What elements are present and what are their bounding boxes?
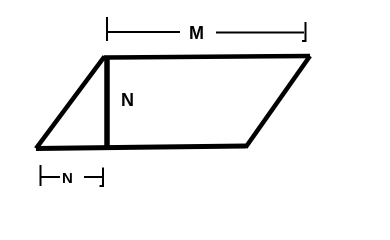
svg-text:M: M [189, 23, 204, 43]
parallelogram left slant edge [36, 57, 105, 149]
dimension M: left line segment [107, 31, 180, 33]
dimension M: right line segment [216, 32, 304, 34]
svg-text:N: N [62, 170, 73, 187]
svg-text:N: N [121, 90, 134, 110]
dimension N: right tick [100, 168, 104, 187]
dimension N: left line segment [41, 176, 61, 178]
dimension M: left tick [106, 17, 108, 41]
parallelogram top edge [104, 56, 310, 58]
dimension N: left tick [40, 165, 42, 186]
parallelogram right slant edge [246, 56, 311, 148]
parallelogram bottom edge [36, 146, 246, 149]
dimension N: right line segment [84, 176, 102, 178]
height line N (vertical) [104, 56, 110, 149]
dimension M: right tick [302, 22, 306, 41]
